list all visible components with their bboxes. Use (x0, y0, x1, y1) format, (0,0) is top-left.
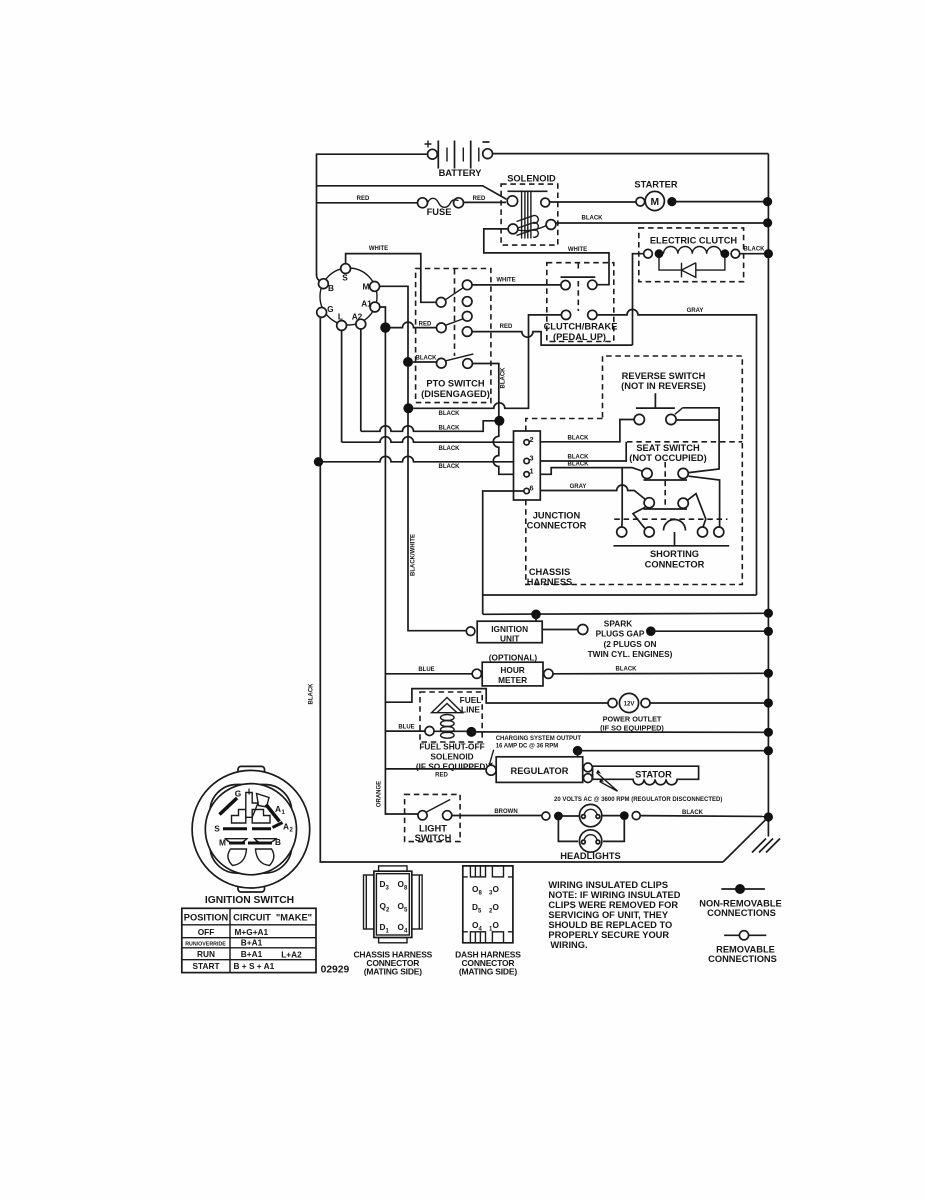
PTO switch label (421, 379, 490, 400)
svg-text:SPARK: SPARK (604, 619, 632, 629)
power outlet label (600, 715, 664, 733)
svg-text:RUN: RUN (197, 949, 215, 959)
solenoid box (501, 184, 558, 245)
svg-text:BLACK: BLACK (416, 356, 438, 362)
wire fuse to solenoid (464, 201, 507, 203)
electric clutch coil (664, 246, 722, 253)
wire fuse feed (317, 202, 418, 204)
svg-text:3: 3 (530, 454, 534, 463)
junction dot ignition unit tap (531, 610, 541, 620)
wire starter to right bus (672, 201, 768, 203)
right wing (412, 875, 422, 929)
svg-text:(NOT OCCUPIED): (NOT OCCUPIED) (629, 453, 706, 463)
svg-text:SHOULD BE REPLACED TO: SHOULD BE REPLACED TO (548, 920, 672, 930)
electric clutch junction dot right (721, 249, 730, 258)
PTO pole1 left contact (436, 298, 446, 308)
wire regulator feed (385, 768, 486, 770)
shorting connector dashed line (614, 518, 727, 520)
svg-text:LINE: LINE (461, 705, 480, 715)
svg-text:CONNECTOR: CONNECTOR (527, 521, 587, 531)
svg-text:BLACK: BLACK (568, 435, 590, 441)
svg-text:TWIN CYL. ENGINES): TWIN CYL. ENGINES) (588, 649, 673, 659)
svg-text:M: M (219, 837, 226, 847)
wire y614 to right bus (483, 613, 764, 614)
junction dot left bus (314, 457, 323, 466)
stator (593, 766, 699, 785)
wire black PTO down to junction pin1 (472, 364, 524, 475)
svg-text:WIRING INSULATED CLIPS: WIRING INSULATED CLIPS (548, 880, 668, 890)
svg-text:BLACK: BLACK (568, 454, 590, 460)
slot middle cross (232, 810, 271, 824)
svg-text:LIGHT: LIGHT (419, 824, 447, 834)
svg-text:BATTERY: BATTERY (439, 168, 483, 178)
ignition switch rear view (192, 766, 310, 892)
wire headlights to right bus (640, 815, 768, 818)
slot center vertical (246, 793, 258, 818)
wire left-bus black to junction pin3 (319, 456, 525, 461)
wire white PTO to clutch/brake (472, 284, 561, 286)
hour meter box (482, 662, 543, 686)
bottom notches (470, 932, 485, 943)
PTO pole3 right contact (463, 359, 473, 369)
headlight terminal (542, 812, 550, 820)
wire electric clutch to right bus (740, 253, 769, 255)
svg-text:SWITCH: SWITCH (415, 833, 452, 843)
junction dot starter (667, 197, 676, 206)
svg-text:16 AMP DC @ 36 RPM: 16 AMP DC @ 36 RPM (496, 744, 559, 750)
wire 12V to right bus (650, 702, 768, 704)
svg-text:S: S (342, 273, 348, 283)
junction dot A1 red tap (380, 322, 390, 332)
junction dot right bus 1 (763, 197, 772, 206)
svg-text:CIRCUIT: CIRCUIT (233, 912, 271, 922)
svg-text:BLACK: BLACK (501, 367, 507, 389)
fuel solenoid coil (441, 715, 455, 721)
wire 12V feed (385, 689, 608, 703)
solenoid terminal bottom-left (508, 224, 518, 234)
side notches (463, 877, 513, 932)
terminal A2 (356, 319, 366, 329)
fuel line dashed box (420, 692, 482, 742)
battery BT1 (425, 141, 493, 179)
svg-text:METER: METER (498, 675, 527, 685)
ring arcs (320, 268, 377, 325)
svg-text:REVERSE SWITCH: REVERSE SWITCH (622, 371, 706, 381)
bar G (220, 798, 238, 815)
wire pin6 gray to seat (540, 485, 645, 500)
body (374, 871, 412, 937)
junction dot 499 (494, 416, 504, 426)
svg-text:WHITE: WHITE (369, 246, 388, 252)
charging arrow (490, 750, 494, 764)
wire L down (341, 330, 343, 442)
headlight lamp2 (579, 830, 601, 852)
svg-text:ORANGE: ORANGE (377, 781, 383, 807)
svg-text:BLACK: BLACK (568, 462, 590, 468)
key bottom tab (238, 872, 265, 892)
reverse switch blade (675, 408, 683, 415)
svg-text:POSITION: POSITION (184, 912, 229, 922)
fuel solenoid left terminal (425, 727, 434, 736)
slot pie bottom-left (228, 849, 247, 866)
svg-text:BLACK: BLACK (616, 667, 638, 673)
top tab (379, 866, 407, 871)
inner circle (205, 784, 296, 875)
solenoid terminal bottom-right (546, 220, 556, 230)
svg-text:6: 6 (530, 484, 534, 493)
fuel filter triangle (432, 698, 463, 713)
wire lamp2 loop (558, 820, 624, 842)
svg-text:SERVICING OF UNIT, THEY: SERVICING OF UNIT, THEY (548, 910, 668, 920)
wire reverse to seat switch (683, 408, 720, 473)
wire solenoid black to right bus (556, 222, 768, 224)
light switch box (405, 794, 461, 841)
shorting connector pins (617, 527, 724, 537)
wire seat TR to shorting (689, 476, 720, 527)
svg-text:(MATING SIDE): (MATING SIDE) (364, 967, 423, 977)
svg-text:BLACK/WHITE: BLACK/WHITE (411, 534, 417, 576)
dash harness connector drawing (463, 866, 513, 943)
svg-text:REGULATOR: REGULATOR (510, 766, 568, 776)
wire fuel solenoid to right bus (471, 731, 768, 733)
wire to lamp1 (558, 815, 580, 817)
svg-text:UNIT: UNIT (500, 634, 519, 644)
svg-text:A1: A1 (361, 298, 372, 308)
seat switch top bar (644, 479, 688, 481)
wire ignition unit to spark plug (542, 629, 577, 631)
shorting connector stem (674, 532, 676, 546)
svg-text:SHORTING: SHORTING (650, 549, 699, 559)
solenoid coil (517, 215, 539, 237)
svg-text:NOTE: IF WIRING INSULATED: NOTE: IF WIRING INSULATED (548, 890, 680, 900)
wire G left bus down (320, 317, 723, 862)
wire pin2 to reverse switch (540, 420, 634, 442)
wire red A1 to PTO (391, 322, 437, 327)
svg-text:G: G (235, 789, 241, 799)
svg-text:B+A1: B+A1 (241, 949, 263, 959)
svg-text:HARNESS: HARNESS (527, 577, 572, 587)
top notches (470, 866, 485, 877)
PTO inner dashed divider (454, 269, 456, 356)
junction pins (524, 435, 534, 494)
junction dot fuel solenoid (466, 727, 476, 737)
ignition unit stub (535, 614, 537, 621)
ignition switch ring (schematic) (317, 264, 380, 331)
svg-text:PTO SWITCH: PTO SWITCH (426, 379, 484, 389)
shorting connector arc (664, 520, 686, 531)
svg-text:S: S (214, 824, 220, 834)
svg-text:(DISENGAGED): (DISENGAGED) (421, 389, 490, 399)
clutch/brake labels (544, 322, 618, 342)
PTO dead contact 2 (462, 312, 472, 322)
svg-text:START: START (192, 961, 219, 971)
terminal L (337, 321, 347, 331)
bar A1 (266, 805, 280, 822)
svg-text:CLUTCH/BRAKE: CLUTCH/BRAKE (544, 322, 618, 332)
wire battery+ branch to solenoid (317, 186, 507, 200)
dash harness connector label (455, 950, 521, 977)
clutch/brake plunger bar (561, 276, 596, 278)
shorting connector base (613, 545, 729, 547)
terminal S (341, 264, 351, 274)
regulator box (496, 757, 583, 783)
svg-text:RED: RED (473, 196, 486, 202)
svg-text:RED: RED (419, 321, 432, 327)
svg-text:M+G+A1: M+G+A1 (235, 927, 269, 937)
wire S white (346, 254, 437, 303)
svg-text:(OPTIONAL): (OPTIONAL) (489, 653, 538, 663)
stator arrows (597, 773, 618, 792)
battery terminal right circle (483, 149, 493, 159)
right bus vertical (767, 154, 769, 837)
svg-text:RED: RED (435, 773, 448, 779)
svg-text:O: O (493, 884, 500, 894)
ignition switch table (182, 908, 316, 972)
svg-text:ELECTRIC CLUTCH: ELECTRIC CLUTCH (650, 236, 738, 246)
svg-text:NON-REMOVABLE: NON-REMOVABLE (699, 899, 781, 909)
starter M1 (634, 180, 677, 211)
svg-text:BLUE: BLUE (398, 725, 414, 731)
svg-text:BLACK: BLACK (682, 810, 704, 816)
bottom tab (379, 938, 407, 943)
svg-text:HEADLIGHTS: HEADLIGHTS (560, 851, 620, 861)
fuel shut-off solenoid label (416, 742, 489, 779)
clutch/brake box (547, 263, 614, 342)
svg-text:WIRING.: WIRING. (550, 940, 587, 950)
svg-text:L: L (338, 312, 343, 322)
wire black M-tap to PTO (413, 361, 437, 363)
svg-text:BLUE: BLUE (418, 667, 434, 673)
svg-text:(NOT IN REVERSE): (NOT IN REVERSE) (621, 381, 706, 391)
wire lamp1 to dot (602, 815, 625, 817)
svg-text:CHASSIS: CHASSIS (529, 567, 570, 577)
PTO pole1 blade (445, 288, 463, 300)
reverse switch plunger (636, 393, 675, 408)
svg-text:B: B (275, 837, 281, 847)
power outlet 12V (608, 693, 650, 712)
wire B(fuse) to ring (317, 274, 321, 281)
svg-text:FUSE: FUSE (427, 207, 452, 217)
wire y595 gray link (483, 594, 757, 596)
svg-text:PROPERLY SECURE YOUR: PROPERLY SECURE YOUR (548, 930, 669, 940)
terminal B (319, 279, 329, 289)
svg-text:BLACK: BLACK (582, 216, 604, 222)
wire regulator to right bus (578, 750, 769, 752)
svg-text:M: M (363, 282, 370, 292)
junction dot headlight right (620, 811, 629, 820)
svg-text:GRAY: GRAY (687, 308, 704, 314)
bar S row (223, 827, 271, 830)
outer circle (192, 770, 310, 888)
svg-text:OFF: OFF (198, 927, 215, 937)
fuse F1 (418, 198, 464, 217)
svg-text:A2: A2 (352, 312, 363, 322)
ignition unit left terminal (466, 627, 475, 636)
svg-text:1: 1 (530, 467, 534, 476)
wire A2 black to junction dot (361, 421, 495, 432)
seat switch bottom bar (644, 508, 688, 510)
wire solenoid to starter (550, 201, 636, 203)
svg-text:POWER OUTLET: POWER OUTLET (603, 715, 662, 724)
svg-text:CONNECTIONS: CONNECTIONS (708, 954, 777, 964)
seat switch top contacts (642, 468, 652, 478)
junction dot M black tap (403, 357, 413, 367)
terminal G (317, 308, 327, 318)
svg-text:RUN/OVERRIDE: RUN/OVERRIDE (185, 941, 226, 947)
svg-text:REMOVABLE: REMOVABLE (716, 945, 775, 955)
svg-text:IGNITION: IGNITION (491, 624, 528, 634)
wire A to clutch/brake bottom (413, 315, 561, 408)
wire A1 down (380, 307, 419, 814)
svg-text:CHARGING SYSTEM OUTPUT: CHARGING SYSTEM OUTPUT (496, 736, 582, 742)
key top tab (238, 766, 265, 786)
wire solenoid lower-left white (484, 229, 609, 285)
regulator stub (577, 751, 579, 757)
junction dots right bus lower (764, 609, 773, 618)
svg-text:M: M (651, 197, 660, 208)
reverse switch contacts (634, 414, 644, 424)
svg-text:O: O (493, 902, 500, 912)
PTO pole3 left contact (437, 358, 447, 368)
wire A2 down (360, 329, 362, 432)
svg-text:"MAKE": "MAKE" (276, 912, 312, 922)
wire hour meter to right bus (553, 672, 768, 675)
wire battery- to right bus (493, 153, 769, 155)
svg-text:FUEL: FUEL (460, 695, 482, 705)
svg-text:A: A (275, 804, 281, 814)
svg-text:FUEL SHUT-OFF: FUEL SHUT-OFF (419, 742, 484, 752)
junction dot right bus 3 (764, 249, 773, 258)
ground symbol (752, 839, 780, 853)
battery minus sign (483, 141, 490, 143)
svg-text:CONNECTOR: CONNECTOR (645, 560, 705, 570)
light switch blade (426, 800, 450, 813)
solenoid core (508, 191, 548, 238)
light switch label (415, 824, 452, 844)
battery terminal left circle (428, 149, 438, 159)
svg-text:A: A (283, 822, 289, 832)
wiring insulated clips note (548, 880, 680, 950)
junction dot right bus 2 (763, 218, 772, 227)
svg-text:(IF SO EQUIPPED): (IF SO EQUIPPED) (600, 724, 664, 733)
svg-text:WHITE: WHITE (568, 247, 587, 253)
bar MB row (229, 842, 272, 845)
seat switch bottom contacts (644, 498, 654, 508)
svg-text:BLACK: BLACK (309, 683, 315, 705)
svg-text:PLUGS GAP: PLUGS GAP (596, 629, 645, 639)
wire L black to junction pin2 (342, 437, 524, 443)
solenoid terminal top-left (507, 196, 517, 206)
ground diagonal (723, 817, 768, 862)
svg-text:B: B (328, 283, 334, 293)
wire pin6 gray left loop (483, 491, 524, 614)
svg-text:STARTER: STARTER (634, 180, 677, 190)
chassis harness connector drawing (364, 866, 423, 943)
svg-text:(PEDAL UP): (PEDAL UP) (553, 332, 606, 342)
rounded square (210, 785, 292, 874)
solenoid contact blade (518, 225, 547, 230)
legend non-removable (699, 884, 781, 918)
clutch/brake bottom contacts (561, 310, 570, 319)
wire red PTO to electric clutch (472, 332, 633, 346)
slot pentagon top right (257, 794, 270, 808)
svg-text:SOLENOID: SOLENOID (507, 174, 556, 184)
svg-text:GRAY: GRAY (570, 484, 587, 490)
PTO pole3 blade open (446, 354, 474, 361)
reverse switch bottom dashed (627, 441, 742, 443)
svg-text:RED: RED (357, 196, 370, 202)
wire pin1 to seat switch (540, 468, 643, 475)
svg-text:WHITE: WHITE (496, 278, 515, 284)
slot lens right (255, 839, 277, 844)
svg-text:BLACK: BLACK (439, 411, 461, 417)
battery plus sign (425, 141, 432, 148)
wire M black/white vertical bus (379, 286, 466, 630)
fuel line label (460, 695, 482, 715)
svg-text:JUNCTION: JUNCTION (533, 511, 581, 521)
PTO pole2 left contact (437, 323, 447, 333)
svg-text:12V: 12V (624, 702, 635, 708)
svg-text:BLACK: BLACK (439, 446, 461, 452)
svg-text:BLACK: BLACK (744, 247, 766, 253)
seat switch label (629, 443, 706, 463)
svg-text:B + S + A1: B + S + A1 (234, 961, 275, 971)
electric clutch diode D1 (659, 258, 725, 277)
svg-text:(2 PLUGS ON: (2 PLUGS ON (603, 639, 656, 649)
PTO pole2 blade (446, 319, 463, 325)
legend removable (708, 931, 777, 964)
junction dot headlight left (554, 812, 563, 821)
reverse switch label (621, 371, 706, 391)
spark plugs label (588, 619, 673, 660)
shorting connector label (645, 549, 705, 570)
wire through fuel solenoid (434, 730, 467, 732)
wire hour meter feed (385, 673, 472, 675)
svg-text:BLACK: BLACK (439, 426, 461, 432)
electric clutch box (639, 228, 744, 282)
chassis harness dashed outline (526, 356, 743, 585)
wire seat left down to shorting (621, 468, 623, 527)
svg-text:L+A2: L+A2 (281, 950, 302, 960)
chassis harness connector label (353, 950, 432, 977)
svg-text:O: O (493, 920, 500, 930)
svg-text:BROWN: BROWN (494, 809, 517, 815)
wire battery+ to left bus (317, 154, 428, 274)
clutch/brake dashed stem mid (577, 281, 579, 311)
spark plug terminal (578, 625, 588, 635)
junction dot spark (646, 626, 656, 636)
electric clutch left terminal (644, 249, 653, 258)
junction dot regulator (573, 746, 583, 756)
svg-text:BLACK: BLACK (439, 464, 461, 470)
wire gray clutch/brake to right (597, 309, 757, 595)
seat switch actuator dashed (664, 462, 666, 508)
svg-text:2: 2 (530, 435, 534, 444)
wire seat LR to shorting (688, 494, 706, 527)
clutch/brake plunger dashed (577, 263, 579, 272)
svg-text:B+A1: B+A1 (241, 938, 263, 948)
charging system label (496, 736, 582, 750)
chassis harness label (527, 567, 572, 587)
wire pin3 right (540, 442, 626, 461)
left wing (364, 875, 374, 929)
solenoid terminal top-right (541, 198, 550, 207)
electric clutch right terminal (731, 249, 740, 258)
svg-text:(IF SO EQUIPPED): (IF SO EQUIPPED) (416, 762, 489, 772)
slot lens left (226, 839, 248, 844)
junction dot black/white 408 (403, 403, 413, 413)
svg-text:HOUR: HOUR (500, 665, 524, 675)
